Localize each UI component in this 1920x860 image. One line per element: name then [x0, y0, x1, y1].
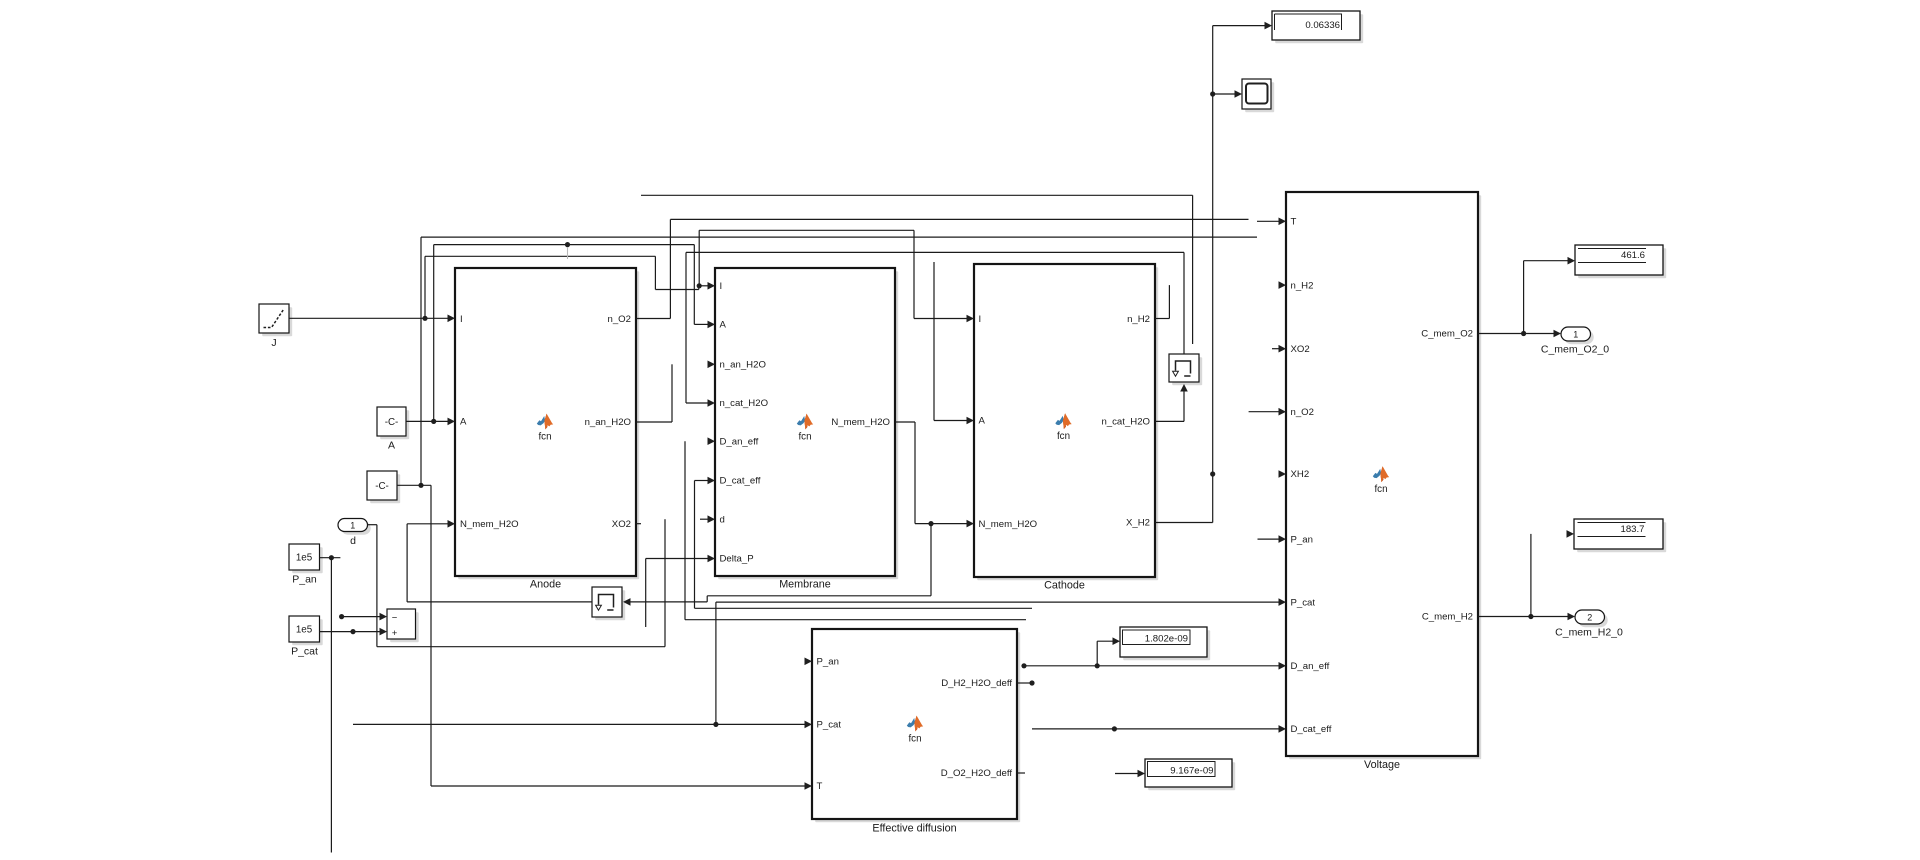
wire N_mem out — [895, 421, 915, 423]
wire into Voltage.P_an — [1258, 535, 1287, 543]
svg-text:n_an_H2O: n_an_H2O — [585, 417, 631, 428]
wire into Membrane.n_cat_H2O — [686, 399, 715, 407]
wire display 1.802 riser — [1096, 641, 1098, 666]
Voltage port label D_an_eff — [1291, 661, 1330, 672]
wire D_O2 stub — [1017, 772, 1025, 774]
Cathode port label X_H2 — [1126, 518, 1150, 529]
EffDiff port label P_cat — [817, 720, 842, 731]
wire delay1 riser — [406, 524, 408, 602]
wire into Cathode.A — [934, 417, 974, 425]
wire into Cathode.I — [914, 315, 974, 323]
wire d drop — [376, 525, 378, 647]
constant A (-C-) — [377, 407, 409, 439]
Membrane port label n_an_H2O — [720, 360, 766, 371]
label Cathode — [1044, 580, 1085, 592]
wire I drop to jog — [654, 256, 656, 289]
wire XO2 horizontal — [641, 194, 1193, 196]
wire d out — [368, 524, 377, 526]
label A — [388, 440, 395, 452]
outport 2 (C_mem_H2_0) — [1575, 610, 1608, 627]
Voltage port label XH2 — [1291, 469, 1310, 480]
Voltage port label C_mem_H2 — [1422, 612, 1473, 623]
svg-text:9.167e-09: 9.167e-09 — [1170, 766, 1213, 777]
wire n_an_H2O out — [636, 421, 672, 423]
label d — [350, 535, 356, 547]
wire into Cathode.N_mem_H2O — [915, 520, 974, 528]
unit delay 1 — [592, 587, 625, 620]
svg-text:C_mem_O2: C_mem_O2 — [1421, 329, 1473, 340]
svg-text:X_H2: X_H2 — [1126, 518, 1150, 529]
svg-text:Membrane: Membrane — [779, 579, 831, 591]
Anode port label XO2 — [612, 519, 631, 530]
arrow into EffDiff.P_an — [805, 658, 813, 666]
Cathode port label A — [979, 416, 986, 427]
wire D_an_eff line — [1021, 662, 1286, 670]
svg-text:XH2: XH2 — [1291, 469, 1310, 480]
Membrane port label D_cat_eff — [720, 476, 761, 487]
svg-text:P_cat: P_cat — [291, 646, 318, 658]
wire into sum minus — [339, 613, 387, 621]
svg-text:183.7: 183.7 — [1620, 524, 1644, 535]
wire N_mem jog — [706, 596, 708, 602]
svg-text:D_cat_eff: D_cat_eff — [1291, 724, 1332, 735]
block Anode (subsystem) — [455, 268, 639, 579]
label Voltage — [1364, 759, 1400, 771]
Membrane port label D_an_eff — [720, 436, 759, 447]
unit delay 2 — [1169, 354, 1202, 385]
svg-text:n_O2: n_O2 — [1291, 407, 1314, 418]
EffDiff port label T — [817, 781, 823, 792]
svg-text:C_mem_H2_0: C_mem_H2_0 — [1555, 627, 1623, 639]
svg-text:-C-: -C- — [375, 481, 389, 492]
svg-text:XO2: XO2 — [1291, 344, 1310, 355]
Voltage port label n_O2 — [1291, 407, 1314, 418]
svg-text:P_an: P_an — [292, 574, 317, 586]
svg-text:N_mem_H2O: N_mem_H2O — [460, 519, 519, 530]
wire T const out — [397, 483, 431, 488]
svg-text:XO2: XO2 — [612, 519, 631, 530]
wire into display 9.167e-09 — [1115, 770, 1145, 778]
svg-text:d: d — [350, 535, 356, 547]
wire n_cat feedback drop — [685, 252, 687, 403]
Anode port label n_an_H2O — [585, 417, 631, 428]
Voltage port label P_cat — [1291, 597, 1316, 608]
wire X_H2 out — [1155, 522, 1213, 524]
ghost stub below A junction — [567, 247, 569, 259]
display 1.802e-09 — [1120, 627, 1210, 660]
svg-text:1e5: 1e5 — [296, 553, 313, 564]
Anode port label N_mem_H2O — [460, 519, 519, 530]
svg-text:fcn: fcn — [538, 431, 551, 442]
svg-text:I: I — [460, 314, 463, 325]
wire n_O2 out — [636, 318, 670, 320]
arrow into Membrane.n_an_H2O — [708, 361, 716, 369]
svg-text:D_O2_H2O_deff: D_O2_H2O_deff — [941, 768, 1013, 779]
wire into display 461.6 — [1524, 257, 1575, 265]
block Effective diffusion (MATLAB function) — [812, 629, 1020, 822]
wire A to Anode.A — [406, 418, 455, 426]
label P_an — [292, 574, 317, 586]
wire D_cat distribution — [695, 481, 1033, 609]
block Membrane (subsystem) — [715, 268, 898, 579]
junction I at Membrane — [697, 283, 702, 288]
wire d riser — [664, 519, 666, 647]
label P_cat — [291, 646, 318, 658]
label J — [271, 337, 276, 349]
block Cathode (subsystem) — [974, 264, 1158, 580]
wire into Membrane.d — [700, 515, 715, 523]
svg-text:d: d — [720, 514, 725, 525]
arrow into Voltage.XH2 — [1279, 470, 1287, 478]
svg-text:n_cat_H2O: n_cat_H2O — [1101, 417, 1150, 428]
wire A to Cathode (partial) — [933, 262, 935, 421]
svg-text:P_cat: P_cat — [1291, 597, 1316, 608]
Voltage port label T — [1291, 217, 1297, 228]
sum block (Delta_P = - P_an + P_cat) — [387, 609, 419, 642]
svg-text:461.6: 461.6 — [1621, 250, 1645, 261]
svg-text:D_H2_H2O_deff: D_H2_H2O_deff — [941, 678, 1012, 689]
svg-text:n_cat_H2O: n_cat_H2O — [720, 398, 769, 409]
wire I jog up — [698, 286, 700, 290]
svg-text:Anode: Anode — [530, 579, 561, 591]
svg-text:Effective diffusion: Effective diffusion — [872, 823, 956, 835]
svg-text:n_H2: n_H2 — [1127, 314, 1150, 325]
svg-text:n_O2: n_O2 — [608, 314, 631, 325]
svg-text:n_an_H2O: n_an_H2O — [720, 360, 766, 371]
wire n_H2 out — [1155, 318, 1169, 320]
wire C_mem_O2 out — [1478, 330, 1561, 338]
Membrane port label n_cat_H2O — [720, 398, 769, 409]
wire A riser — [433, 245, 435, 422]
arrow into Voltage.n_H2 — [1279, 281, 1287, 289]
svg-text:2: 2 — [1587, 613, 1592, 623]
wire N_mem to delay horizontal — [707, 595, 931, 597]
display 0.06336 — [1272, 11, 1363, 43]
svg-text:D_an_eff: D_an_eff — [1291, 661, 1330, 672]
wire into scope — [1213, 90, 1242, 98]
Membrane port label A — [720, 320, 727, 331]
svg-text:A: A — [720, 320, 727, 331]
svg-text:C_mem_O2_0: C_mem_O2_0 — [1541, 344, 1609, 356]
wire Delta_P riser — [645, 559, 647, 628]
wire N_mem branch drop — [930, 524, 932, 596]
svg-text:I: I — [979, 314, 982, 325]
wire XO2 drop — [1192, 195, 1194, 344]
svg-text:A: A — [460, 417, 467, 428]
wire into Membrane.Delta_P — [646, 555, 715, 563]
svg-text:P_an: P_an — [1291, 534, 1313, 545]
wire into Voltage.XO2 — [1272, 345, 1286, 353]
svg-text:I: I — [720, 281, 723, 292]
svg-text:N_mem_H2O: N_mem_H2O — [831, 417, 890, 428]
Cathode port label n_H2 — [1127, 314, 1150, 325]
wire into display 1.802e-09 — [1097, 637, 1120, 645]
wire C_mem_O2 display riser — [1523, 261, 1525, 334]
svg-text:T: T — [1291, 217, 1297, 228]
constant P_cat (1e5) — [289, 616, 323, 645]
svg-text:T: T — [817, 781, 823, 792]
wire P_cat out — [320, 628, 388, 636]
label C_mem_H2_0 — [1555, 627, 1623, 639]
wire delay2 out riser — [1183, 252, 1185, 354]
Anode port label I — [460, 314, 463, 325]
wire n_cat feedback horizontal — [686, 251, 1184, 253]
inport 1 (d) — [338, 519, 371, 535]
wire I distribution horizontal — [425, 255, 655, 257]
wire T down branch — [430, 485, 432, 786]
Voltage port label P_an — [1291, 534, 1313, 545]
Membrane port label I — [720, 281, 723, 292]
Cathode port label N_mem_H2O — [979, 519, 1038, 530]
wire into display 0.06336 — [1213, 22, 1272, 30]
svg-text:−: − — [392, 613, 398, 624]
wire n_cat out — [1155, 420, 1184, 422]
svg-text:Delta_P: Delta_P — [720, 554, 754, 565]
wire A drop to Membrane.A — [693, 245, 695, 325]
Membrane port label d — [720, 514, 725, 525]
wire delay1 output — [407, 601, 592, 603]
svg-text:fcn: fcn — [798, 431, 811, 442]
EffDiff port label D_O2_H2O_deff — [941, 768, 1013, 779]
Anode port label n_O2 — [608, 314, 631, 325]
Membrane port label Delta_P — [720, 554, 754, 565]
wire into Voltage.n_O2 — [1249, 408, 1286, 416]
Voltage port label C_mem_O2 — [1421, 329, 1473, 340]
wire T horizontal — [421, 236, 1257, 238]
Cathode port label I — [979, 314, 982, 325]
Anode port label A — [460, 417, 467, 428]
svg-text:1.802e-09: 1.802e-09 — [1145, 634, 1188, 645]
wire D_H2 stub — [1017, 680, 1035, 685]
svg-text:A: A — [388, 440, 395, 452]
Voltage port label n_H2 — [1291, 280, 1314, 291]
svg-text:fcn: fcn — [1057, 431, 1070, 442]
wire J to Anode.I — [289, 315, 455, 323]
wire P_cat riser — [715, 602, 717, 724]
svg-text:fcn: fcn — [908, 733, 921, 744]
wire n_an_H2O riser — [671, 364, 673, 422]
outport 1 (C_mem_O2_0) — [1561, 327, 1594, 344]
wire into Voltage.T — [1257, 218, 1286, 226]
wire n_cat riser to delay2 — [1180, 384, 1188, 421]
svg-text:J: J — [271, 337, 276, 349]
block J (ramp source) — [259, 304, 292, 336]
wire into unit delay 1 — [623, 598, 707, 606]
svg-text:P_an: P_an — [817, 657, 839, 668]
wire C_mem_H2 out — [1478, 613, 1575, 621]
wire XO2 stub — [636, 523, 641, 525]
display 9.167e-09 — [1145, 759, 1235, 790]
label Effective diffusion — [872, 823, 956, 835]
wire P_cat to Voltage — [716, 598, 1286, 606]
label Anode — [530, 579, 561, 591]
display 183.7 — [1574, 519, 1666, 552]
label C_mem_O2_0 — [1541, 344, 1609, 356]
constant T (-C-) — [367, 471, 400, 503]
svg-text:1e5: 1e5 — [296, 625, 313, 636]
Cathode port label n_cat_H2O — [1101, 417, 1150, 428]
arrow into Membrane.D_an_eff — [708, 437, 716, 445]
wire I riser — [424, 256, 426, 318]
svg-text:n_H2: n_H2 — [1291, 280, 1314, 291]
svg-text:Voltage: Voltage — [1364, 759, 1400, 771]
constant P_an (1e5) — [289, 544, 323, 573]
Voltage port label XO2 — [1291, 344, 1310, 355]
wire N_mem drop — [914, 422, 916, 524]
wire D_cat_eff line — [1032, 725, 1286, 733]
svg-text:+: + — [392, 628, 398, 639]
wire into Membrane.A — [694, 321, 715, 329]
label Membrane — [779, 579, 831, 591]
wire C_mem_H2 display riser — [1530, 534, 1532, 617]
wire into Membrane.D_cat_eff — [695, 477, 716, 485]
svg-text:1: 1 — [1573, 330, 1578, 340]
wire I to Cathode drop — [913, 230, 915, 318]
wire P_cat horizontal — [353, 721, 812, 729]
svg-text:fcn: fcn — [1374, 484, 1387, 495]
wire I branch up — [698, 230, 700, 285]
wire P_an long drop — [330, 558, 332, 853]
wire d horizontal — [377, 646, 665, 648]
wire P_an out stub — [320, 555, 341, 560]
scope block — [1242, 79, 1274, 112]
svg-text:P_cat: P_cat — [817, 720, 842, 731]
block Voltage (MATLAB function) — [1286, 192, 1481, 759]
EffDiff port label P_an — [817, 657, 839, 668]
wire n_O2 riser — [669, 219, 671, 318]
EffDiff port label D_H2_H2O_deff — [941, 678, 1012, 689]
wire T to EffDiff — [431, 782, 812, 790]
svg-text:D_an_eff: D_an_eff — [720, 436, 759, 447]
wire into Membrane.I — [699, 282, 715, 290]
svg-text:D_cat_eff: D_cat_eff — [720, 476, 761, 487]
wire I jog horizontal — [655, 289, 698, 291]
svg-text:1: 1 — [350, 521, 355, 531]
wire n_H2 riser — [1168, 285, 1170, 318]
Membrane port label N_mem_H2O — [831, 417, 890, 428]
wire A horizontal — [434, 242, 695, 247]
wire X_H2 riser — [1210, 26, 1215, 523]
svg-text:A: A — [979, 416, 986, 427]
svg-text:0.06336: 0.06336 — [1305, 20, 1340, 31]
svg-text:-C-: -C- — [385, 417, 399, 428]
wire T riser — [420, 237, 422, 485]
Voltage port label D_cat_eff — [1291, 724, 1332, 735]
svg-text:C_mem_H2: C_mem_H2 — [1422, 612, 1473, 623]
display 461.6 — [1575, 245, 1666, 278]
wire n_O2 horizontal — [670, 218, 1248, 220]
wire I to Cathode horizontal — [699, 229, 914, 231]
arrow into display 183.7 — [1567, 530, 1575, 538]
wire D_an distribution — [685, 441, 1026, 620]
svg-text:N_mem_H2O: N_mem_H2O — [979, 519, 1038, 530]
wire into Anode.N_mem_H2O — [407, 520, 455, 528]
svg-text:Cathode: Cathode — [1044, 580, 1085, 592]
